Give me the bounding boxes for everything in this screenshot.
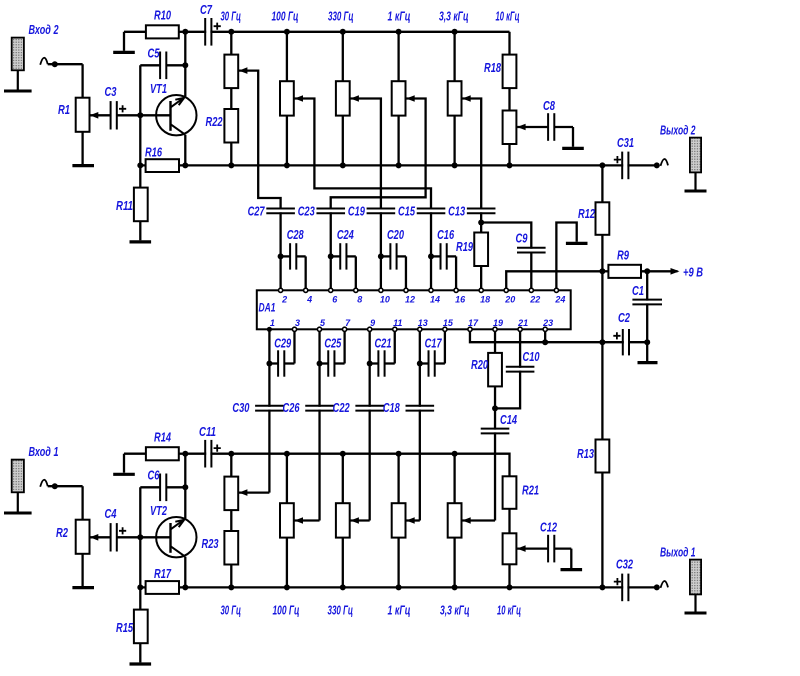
node C25 junction [317, 361, 323, 367]
svg-text:13: 13 [418, 318, 428, 328]
svg-text:C14: C14 [500, 412, 518, 427]
input connector X2 (Вход 2) [12, 38, 24, 71]
wire 10кГц pot to lower bus [508, 144, 510, 165]
svg-text:100 Гц: 100 Гц [273, 603, 300, 618]
svg-text:C23: C23 [298, 204, 316, 219]
node top bus 1 кГц [396, 29, 402, 35]
svg-text:C29: C29 [274, 336, 292, 351]
svg-text:C30: C30 [232, 400, 250, 415]
wire 30Гц wiper to C27 [239, 71, 281, 209]
wire R20 to C14 [494, 386, 496, 521]
svg-text:C9: C9 [516, 231, 529, 246]
node top bus 100 Гц [284, 29, 290, 35]
resistor R10 [124, 31, 146, 33]
capacitor C15 [430, 209, 432, 288]
svg-text:C32: C32 [616, 557, 634, 572]
capacitor C28 [281, 255, 290, 257]
node C1 bottom [644, 339, 650, 345]
wire base node vertical [139, 65, 141, 187]
capacitor C9 [516, 249, 547, 252]
node R16 left [137, 162, 143, 168]
node 100 Гц lower (bottom) [284, 584, 290, 590]
node R20 C10 C14 junction [492, 405, 498, 411]
node C16 junction [428, 253, 434, 259]
ground R2 [81, 554, 83, 586]
node R17 right [182, 584, 188, 590]
capacitor C20 [381, 255, 390, 257]
capacitor C11 [206, 439, 210, 469]
wire top supply bus [185, 31, 509, 33]
potentiometer 100 Гц (bottom) [280, 503, 294, 537]
capacitor C22 [354, 407, 385, 410]
potentiometer 1 кГц (top) [392, 81, 406, 115]
transistor VT2 [156, 517, 196, 557]
wire 100 Гц pot to bus (bottom) [286, 538, 288, 588]
wire C4 to VT2 base [117, 536, 171, 538]
pin 23 [543, 327, 547, 331]
pin 14 [429, 288, 433, 292]
wire 1 кГц column (bottom) [397, 454, 399, 504]
wire 330 Гц column (bottom) [342, 454, 344, 504]
resistor R20 [488, 353, 502, 387]
pin 6 [329, 288, 333, 292]
capacitor C23 [330, 209, 332, 288]
pin 5 [317, 327, 321, 331]
pin 11 [393, 327, 397, 331]
svg-text:10 кГц: 10 кГц [497, 603, 521, 618]
pin 21 [518, 327, 522, 331]
output connector X3 (Выход 2) [690, 138, 701, 173]
svg-text:3,3 кГц: 3,3 кГц [439, 9, 469, 24]
svg-text:C21: C21 [374, 336, 391, 351]
wire input 2 to R1 [40, 58, 48, 65]
node R9 C1 [644, 268, 650, 274]
svg-text:R19: R19 [456, 239, 474, 254]
node bottom bus 100 Гц [284, 451, 290, 457]
node 3,3 кГц lower [452, 162, 458, 168]
wire 330 Гц wiper (bottom) [350, 519, 369, 521]
resistor R22 [224, 109, 238, 143]
pin 8 [354, 288, 358, 292]
svg-text:R21: R21 [522, 483, 539, 498]
svg-text:C20: C20 [387, 227, 405, 242]
node 10кГц lower (bottom) [507, 584, 513, 590]
svg-text:R1: R1 [58, 102, 70, 117]
svg-text:12: 12 [405, 294, 415, 304]
svg-text:30 Гц: 30 Гц [221, 603, 242, 618]
op-amp IC DA1 [257, 290, 571, 329]
svg-text:R18: R18 [484, 60, 502, 75]
svg-text:C3: C3 [105, 84, 118, 99]
wire 3,3 кГц wiper [462, 99, 482, 210]
node 30Гц lower (bottom) [228, 584, 234, 590]
svg-text:C15: C15 [398, 204, 416, 219]
node rail top [599, 162, 605, 168]
pin 4 [304, 288, 308, 292]
svg-text:20: 20 [504, 294, 515, 304]
output connector X4 (Выход 1) [690, 560, 701, 595]
capacitor C13 [480, 209, 482, 288]
input connector X1 (Вход 1) [12, 460, 24, 493]
svg-text:3,3 кГц: 3,3 кГц [440, 603, 470, 618]
pin 22 [529, 288, 533, 292]
svg-text:+9 В: +9 В [683, 265, 703, 280]
resistor R12 [596, 202, 610, 235]
capacitor C6 [140, 486, 160, 488]
svg-text:R11: R11 [116, 198, 133, 213]
pin 1 [267, 327, 272, 332]
ground C12 [561, 568, 583, 571]
wire 30Гц wiper (bottom) [239, 491, 270, 493]
node output1 [654, 584, 660, 590]
ground R14 [113, 473, 135, 476]
node 10кГц lower [507, 162, 513, 168]
node 1 кГц lower (bottom) [396, 584, 402, 590]
svg-text:C4: C4 [105, 506, 118, 521]
svg-text:C17: C17 [425, 336, 443, 351]
svg-text:1: 1 [270, 318, 275, 328]
pin 9 [368, 327, 372, 331]
svg-text:24: 24 [554, 294, 565, 304]
svg-text:R13: R13 [577, 446, 595, 461]
node R10 right [182, 29, 188, 35]
wire 1 кГц pot to lower bus [397, 116, 399, 166]
ground R1 [81, 132, 83, 164]
resistor R14 [124, 453, 146, 455]
capacitor C7 [206, 17, 210, 47]
svg-text:1 кГц: 1 кГц [388, 9, 411, 24]
svg-text:C28: C28 [287, 227, 305, 242]
svg-text:2: 2 [281, 294, 287, 304]
pin 18 [479, 288, 483, 292]
node C21 junction [367, 361, 373, 367]
svg-text:R2: R2 [56, 525, 69, 540]
wire 3,3 кГц wiper (bottom) [462, 519, 495, 521]
node input1 [52, 483, 58, 489]
potentiometer 30 Гц (bottom) [224, 477, 238, 511]
pin 20 [504, 288, 508, 292]
svg-text:C13: C13 [448, 204, 466, 219]
svg-text:C26: C26 [283, 400, 301, 415]
potentiometer 3,3 кГц (bottom) [448, 503, 462, 537]
svg-text:C31: C31 [617, 135, 634, 150]
pin 3 [292, 327, 296, 331]
wire 100 Гц column (bottom) [286, 454, 288, 504]
svg-text:R10: R10 [154, 8, 172, 23]
svg-text:R20: R20 [471, 357, 489, 372]
pin 16 [454, 288, 458, 292]
svg-text:VT1: VT1 [150, 81, 167, 96]
svg-text:3: 3 [295, 318, 300, 328]
svg-text:C24: C24 [337, 227, 355, 242]
wire 3,3 кГц column (bottom) [453, 454, 455, 504]
node top bus 3,3 кГц [452, 29, 458, 35]
svg-text:4: 4 [306, 294, 312, 304]
capacitor C29 [269, 362, 278, 364]
svg-text:14: 14 [430, 294, 440, 304]
wire pin7 column [419, 331, 421, 520]
svg-text:C25: C25 [324, 336, 342, 351]
svg-text:11: 11 [393, 318, 402, 328]
svg-text:C11: C11 [199, 424, 216, 439]
node 3,3 кГц lower (bottom) [452, 584, 458, 590]
wire 10кГц pot to bus (bottom) [508, 564, 510, 587]
node collector C6 [182, 484, 188, 490]
potentiometer 30 Гц (top) [224, 55, 238, 89]
capacitor C21 [370, 362, 379, 364]
node pin23 bus [542, 339, 548, 345]
svg-text:C22: C22 [333, 400, 351, 415]
pin 10 [379, 288, 383, 292]
node rail C2 [599, 339, 605, 345]
pin 2 [279, 288, 283, 292]
node 30Гц lower [228, 162, 234, 168]
svg-text:C10: C10 [523, 349, 541, 364]
svg-text:9: 9 [370, 318, 375, 328]
potentiometer 10 кГц (bottom) [503, 533, 517, 564]
capacitor C12 [549, 534, 553, 564]
wire R1 wiper to C3 [90, 112, 99, 119]
resistor R16 [146, 159, 179, 172]
capacitor C3 [112, 100, 116, 130]
capacitor C5 [140, 64, 160, 66]
svg-text:22: 22 [529, 294, 540, 304]
node 330 Гц lower [340, 162, 346, 168]
ground C8 [562, 147, 584, 150]
wire 330 Гц pot to bus (bottom) [342, 538, 344, 588]
wire 30Гц pot to R23 [230, 510, 232, 531]
wire 10кГц wiper to C8 [517, 126, 548, 128]
pin 12 [404, 288, 408, 292]
wire R23 to bus [230, 565, 232, 588]
potentiometer 330 Гц (bottom) [336, 503, 350, 537]
svg-text:Выход 1: Выход 1 [660, 545, 696, 560]
wire 100 Гц column top [286, 32, 288, 81]
capacitor C1 [646, 271, 648, 342]
node 330 Гц lower (bottom) [340, 584, 346, 590]
svg-text:R22: R22 [206, 114, 224, 129]
wire pin20 to rail [506, 271, 602, 288]
svg-text:R16: R16 [145, 145, 163, 160]
svg-text:100 Гц: 100 Гц [272, 9, 299, 24]
svg-text:Выход 2: Выход 2 [660, 123, 696, 138]
pin 7 [343, 327, 347, 331]
svg-text:DA1: DA1 [259, 301, 276, 315]
node C13 R19 junction [478, 220, 484, 226]
wire pin3 column [318, 331, 320, 520]
svg-text:18: 18 [480, 294, 490, 304]
capacitor C17 [420, 362, 429, 364]
svg-text:VT2: VT2 [150, 503, 168, 518]
wire pin21 C10 route [495, 331, 520, 408]
wire 3,3 кГц pot to lower bus [453, 116, 455, 166]
wire 100 Гц pot to lower bus [286, 116, 288, 166]
svg-text:Вход 2: Вход 2 [29, 22, 60, 37]
wire C3 to VT1 base [117, 114, 171, 116]
svg-text:R15: R15 [116, 620, 134, 635]
svg-text:R23: R23 [202, 536, 220, 551]
svg-text:R9: R9 [617, 248, 630, 263]
wire 1 кГц column top [397, 32, 399, 81]
node R17 left [137, 584, 143, 590]
potentiometer R1 [76, 98, 90, 132]
capacitor C24 [331, 255, 340, 257]
node collector C5 [182, 62, 188, 68]
svg-text:C18: C18 [383, 400, 401, 415]
wire VT2 emitter [184, 557, 186, 588]
resistor R17 [146, 581, 179, 594]
node top bus 30 Гц [228, 29, 234, 35]
potentiometer 100 Гц (top) [280, 81, 294, 115]
svg-text:16: 16 [455, 294, 466, 304]
capacitor C25 [320, 362, 329, 364]
wire 330 Гц pot to lower bus [342, 116, 344, 166]
svg-text:8: 8 [357, 294, 362, 304]
node C24 junction [328, 253, 334, 259]
capacitor C8 [549, 112, 553, 142]
svg-text:C2: C2 [618, 310, 631, 325]
node 1 кГц lower [396, 162, 402, 168]
resistor R19 [474, 233, 488, 267]
svg-text:17: 17 [468, 318, 479, 328]
potentiometer 1 кГц (bottom) [392, 503, 406, 537]
wire output2 contact [661, 159, 669, 166]
potentiometer 3,3 кГц (top) [448, 81, 462, 115]
svg-text:C5: C5 [148, 46, 161, 61]
node output2 [654, 162, 660, 168]
node rail bottom [599, 584, 605, 590]
svg-text:C27: C27 [248, 204, 266, 219]
svg-text:C16: C16 [437, 227, 455, 242]
svg-text:C12: C12 [540, 520, 558, 535]
node rail R9 [599, 268, 605, 274]
svg-text:C19: C19 [348, 204, 366, 219]
wire 1 кГц wiper (bottom) [406, 519, 420, 521]
node 100 Гц lower [284, 162, 290, 168]
svg-text:30 Гц: 30 Гц [221, 9, 242, 24]
pin 17 [468, 327, 472, 331]
capacitor C32 [602, 586, 656, 588]
wire lower bus (bottom section) [140, 586, 602, 588]
svg-text:10: 10 [380, 294, 390, 304]
wire R18 to pot [508, 88, 510, 110]
wire input 1 to R2 [40, 480, 48, 487]
wire C9 route [481, 223, 531, 289]
wire pin24 to ground [556, 223, 576, 289]
svg-text:10 кГц: 10 кГц [496, 9, 520, 24]
node R14 right [182, 451, 188, 457]
wire 1 кГц pot to bus (bottom) [397, 538, 399, 588]
wire VT1 emitter [184, 135, 186, 166]
wire pin23 stub [544, 331, 546, 342]
svg-text:R14: R14 [154, 430, 172, 445]
capacitor C10 [505, 368, 536, 371]
svg-text:330 Гц: 330 Гц [328, 603, 354, 618]
ground C1 C2 node [646, 342, 648, 361]
wire pin19 R20 column [494, 331, 496, 353]
wire pin1 column [268, 331, 270, 492]
wire pin5 column [369, 331, 371, 520]
wire 330 Гц wiper [350, 99, 381, 210]
capacitor C19 [380, 209, 382, 288]
svg-text:Вход 1: Вход 1 [29, 444, 59, 459]
wire 330 Гц column top [342, 32, 344, 81]
wire 10кГц column top [508, 32, 510, 55]
node C29 junction [266, 361, 272, 367]
resistor R18 [503, 55, 517, 89]
node VT1 base [137, 112, 143, 118]
wire 3,3 кГц column top [453, 32, 455, 81]
wire 10кГц wiper to C12 [517, 547, 548, 549]
ground R10 [113, 51, 135, 54]
svg-text:C1: C1 [632, 283, 644, 298]
wire R2 wiper to C4 [90, 534, 99, 541]
capacitor C16 [431, 255, 440, 257]
potentiometer 10 кГц (top) [503, 111, 517, 145]
wire 100 Гц wiper [294, 99, 431, 210]
potentiometer R2 [76, 520, 90, 554]
resistor R13 [596, 440, 610, 473]
ground pin24 [566, 242, 588, 245]
svg-text:19: 19 [493, 318, 503, 328]
wire VT1 collector [184, 32, 186, 97]
wire 30Гц column top [230, 32, 232, 55]
capacitor C26 [304, 407, 335, 410]
potentiometer 330 Гц (top) [336, 81, 350, 115]
pin 15 [443, 327, 447, 331]
wire VT2 collector [184, 454, 186, 519]
svg-text:15: 15 [443, 318, 454, 328]
node C20 junction [378, 253, 384, 259]
capacitor C31 [602, 164, 656, 166]
svg-text:23: 23 [542, 318, 553, 328]
node VT2 base [137, 534, 143, 540]
svg-text:330 Гц: 330 Гц [328, 9, 354, 24]
pin 24 [554, 288, 558, 292]
pin 13 [418, 327, 422, 331]
svg-text:C7: C7 [200, 2, 213, 17]
wire bottom supply bus [185, 454, 509, 477]
svg-text:21: 21 [517, 318, 528, 328]
svg-text:1 кГц: 1 кГц [388, 603, 411, 618]
node input2 [52, 61, 58, 67]
wire output1 contact [661, 581, 669, 588]
capacitor C14 [480, 430, 511, 433]
resistor R23 [224, 531, 238, 565]
wire 30Гц column (bottom) [230, 454, 232, 477]
capacitor C18 [405, 407, 436, 410]
capacitor C30 [254, 407, 285, 410]
svg-text:C6: C6 [148, 468, 161, 483]
wire base node vertical (ch1) [139, 487, 141, 609]
resistor R21 [503, 476, 517, 509]
wire R22 to lower bus [230, 143, 232, 166]
pin 19 [493, 327, 497, 331]
capacitor C4 [112, 522, 116, 552]
node C17 junction [417, 361, 423, 367]
resistor R11 [134, 188, 148, 222]
wire 30Гц pot to R22 [230, 88, 232, 109]
wire right rail [601, 165, 603, 587]
wire pin17 to C2 bus [470, 331, 647, 342]
wire 100 Гц wiper (bottom) [295, 519, 320, 521]
svg-text:R17: R17 [154, 566, 172, 581]
node R16 right [182, 162, 188, 168]
node top bus 330 Гц [340, 29, 346, 35]
capacitor C2 [624, 328, 628, 356]
resistor R9 [602, 270, 608, 272]
node C28 junction [278, 253, 284, 259]
